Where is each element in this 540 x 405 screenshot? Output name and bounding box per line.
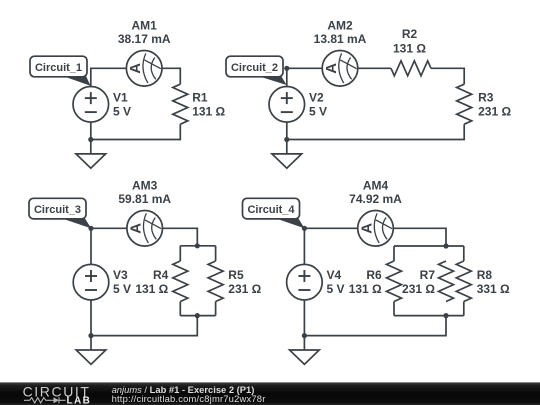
svg-text:5 V: 5 V bbox=[113, 105, 131, 119]
wire circuit 4 loop bbox=[304, 228, 446, 335]
svg-text:V3: V3 bbox=[113, 268, 128, 282]
resistor R2 bbox=[391, 61, 431, 76]
label AM2 value bbox=[314, 19, 367, 46]
label R7 value bbox=[402, 268, 435, 296]
svg-text:A: A bbox=[323, 63, 340, 74]
label R3 value bbox=[478, 91, 511, 119]
ground circuit 3 bbox=[76, 336, 106, 365]
node junction circuit 4 bank bottom bbox=[443, 313, 448, 318]
svg-text:131 Ω: 131 Ω bbox=[135, 282, 168, 296]
label R6 value bbox=[349, 268, 382, 296]
node label Circuit_3 bbox=[29, 198, 91, 228]
svg-text:74.92 mA: 74.92 mA bbox=[349, 192, 402, 206]
ammeter AM4 bbox=[358, 211, 394, 247]
svg-text:131 Ω: 131 Ω bbox=[349, 282, 382, 296]
wire parallel bank circuit 4 bbox=[394, 246, 464, 316]
footer bar bbox=[0, 382, 540, 405]
node junction circuit 3 bottom-left bbox=[88, 333, 93, 338]
wire circuit 1 loop bbox=[91, 68, 181, 139]
svg-text:331 Ω: 331 Ω bbox=[477, 282, 510, 296]
svg-text:A: A bbox=[358, 223, 375, 234]
voltage source V2 bbox=[269, 87, 305, 123]
svg-text:R5: R5 bbox=[228, 268, 244, 282]
svg-text:Circuit_4: Circuit_4 bbox=[247, 204, 295, 216]
svg-text:38.17 mA: 38.17 mA bbox=[118, 32, 171, 46]
node label Circuit_2 bbox=[226, 56, 287, 85]
ammeter AM1 bbox=[126, 51, 162, 87]
svg-text:13.81 mA: 13.81 mA bbox=[314, 32, 367, 46]
svg-text:R3: R3 bbox=[478, 91, 494, 105]
label V1 value bbox=[113, 91, 131, 119]
resistor R1 bbox=[173, 84, 188, 124]
svg-text:5 V: 5 V bbox=[113, 282, 131, 296]
footer title text bbox=[112, 384, 266, 404]
svg-text:http://circuitlab.com/c8jmr7u2: http://circuitlab.com/c8jmr7u2wx78r bbox=[112, 393, 266, 404]
svg-text:Circuit_3: Circuit_3 bbox=[34, 204, 81, 216]
ammeter AM2 bbox=[322, 51, 358, 87]
CircuitLab logo bbox=[23, 384, 92, 405]
node bottom junction circuit 2 bbox=[284, 137, 289, 142]
ground circuit 4 bbox=[290, 336, 320, 365]
svg-text:R1: R1 bbox=[192, 91, 208, 105]
node junction circuit 4 bottom-left bbox=[302, 333, 307, 338]
svg-text:R7: R7 bbox=[420, 268, 436, 282]
svg-text:131 Ω: 131 Ω bbox=[192, 105, 225, 119]
svg-text:AM4: AM4 bbox=[363, 179, 389, 193]
voltage source V3 bbox=[73, 264, 109, 300]
svg-text:Circuit_2: Circuit_2 bbox=[231, 62, 278, 74]
resistor R4 bbox=[173, 261, 188, 302]
ground circuit 2 bbox=[272, 140, 302, 169]
svg-text:V4: V4 bbox=[327, 268, 342, 282]
svg-text:Circuit_1: Circuit_1 bbox=[35, 62, 82, 74]
label R5 value bbox=[228, 268, 261, 296]
wire circuit 2 loop bbox=[287, 68, 464, 139]
label AM3 value bbox=[118, 179, 171, 206]
svg-text:V2: V2 bbox=[309, 91, 324, 105]
svg-text:R4: R4 bbox=[153, 268, 169, 282]
svg-text:231 Ω: 231 Ω bbox=[228, 282, 261, 296]
svg-text:LAB: LAB bbox=[67, 396, 92, 405]
svg-text:A: A bbox=[128, 223, 145, 234]
svg-text:R6: R6 bbox=[366, 268, 382, 282]
svg-text:AM3: AM3 bbox=[132, 179, 158, 193]
resistor R7 bbox=[439, 261, 454, 302]
node top junction circuit 2 bbox=[284, 66, 289, 71]
node bottom junction circuit 1 bbox=[88, 137, 93, 142]
node junction circuit 4 top-left bbox=[302, 226, 307, 231]
label R4 value bbox=[135, 268, 168, 296]
wire circuit 3 loop bbox=[91, 228, 197, 335]
svg-text:R2: R2 bbox=[402, 27, 418, 41]
svg-text:R8: R8 bbox=[477, 268, 493, 282]
svg-text:231 Ω: 231 Ω bbox=[402, 282, 435, 296]
voltage source V4 bbox=[287, 264, 323, 300]
node junction circuit 3 bank top bbox=[195, 243, 200, 248]
resistor R6 bbox=[387, 261, 402, 302]
resistor R3 bbox=[457, 84, 472, 124]
node junction circuit 4 bank top bbox=[443, 243, 448, 248]
label R2 value bbox=[393, 27, 426, 55]
label R8 value bbox=[477, 268, 510, 296]
node junction circuit 3 top-left bbox=[88, 226, 93, 231]
svg-text:131 Ω: 131 Ω bbox=[393, 41, 426, 55]
label AM4 value bbox=[349, 179, 402, 206]
wire parallel bank circuit 3 bbox=[180, 246, 215, 316]
svg-text:59.81 mA: 59.81 mA bbox=[118, 192, 171, 206]
svg-text:AM1: AM1 bbox=[132, 19, 158, 33]
svg-text:5 V: 5 V bbox=[309, 105, 327, 119]
svg-text:231 Ω: 231 Ω bbox=[478, 105, 511, 119]
label AM1 value bbox=[118, 19, 171, 46]
svg-text:5 V: 5 V bbox=[327, 282, 345, 296]
ground circuit 1 bbox=[76, 140, 106, 169]
label R1 value bbox=[192, 91, 225, 119]
label V2 value bbox=[309, 91, 327, 119]
label V3 value bbox=[113, 268, 131, 296]
voltage source V1 bbox=[73, 87, 109, 123]
resistor R8 bbox=[456, 261, 471, 302]
resistor R5 bbox=[208, 261, 223, 302]
ammeter AM3 bbox=[127, 211, 163, 247]
node label Circuit_4 bbox=[243, 198, 305, 228]
node label Circuit_1 bbox=[30, 56, 91, 86]
label V4 value bbox=[327, 268, 345, 296]
svg-text:A: A bbox=[127, 63, 144, 74]
svg-text:V1: V1 bbox=[113, 91, 128, 105]
node junction circuit 3 bank bottom bbox=[195, 313, 200, 318]
svg-text:AM2: AM2 bbox=[327, 19, 353, 33]
